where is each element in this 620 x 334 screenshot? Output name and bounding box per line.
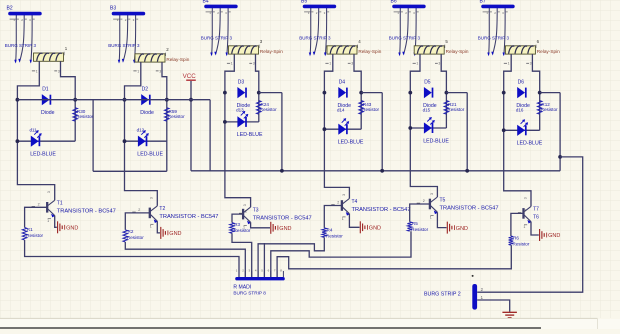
svg-text:d13: d13 [236, 108, 244, 113]
wire R6 to strip pin 7 [277, 245, 511, 277]
wire R2 to strip pin 2 [125, 242, 245, 277]
wire cathode bus / collector net col 4 [324, 93, 349, 199]
node diode row right col 5 [445, 91, 449, 95]
LED d14 [337, 108, 364, 146]
svg-text:R3: R3 [234, 222, 240, 227]
node LED row left col 3 [223, 120, 227, 124]
svg-text:3: 3 [430, 193, 434, 195]
wire VCC rail (cols 1-2) [17, 99, 210, 101]
wire strip pin 5 [263, 243, 265, 277]
wire LED row col 2 [125, 140, 167, 142]
svg-text:B7: B7 [480, 0, 486, 4]
svg-text:1: 1 [508, 62, 510, 66]
svg-text:Resistor: Resistor [76, 114, 93, 119]
svg-text:BURG STRIP 2: BURG STRIP 2 [424, 292, 461, 298]
node diode row left col 5 [408, 91, 412, 95]
wire base net col 3 [232, 214, 243, 223]
connector B6 BURG STRIP 3 [389, 0, 426, 56]
svg-text:Relay-Spin: Relay-Spin [358, 49, 381, 54]
wire relay 1 left pin to node [17, 61, 39, 99]
transistor T3 BC547 [239, 204, 312, 230]
wire cathode bus / collector net col 6 [504, 93, 531, 207]
diode D5 [423, 79, 437, 108]
connector B7 BURG STRIP 3 [478, 0, 515, 56]
svg-text:2: 2 [423, 199, 425, 203]
node branch to output strip [558, 155, 562, 159]
svg-text:1: 1 [150, 225, 152, 229]
wire relay 3 right pin to node [256, 54, 259, 93]
svg-text:Resistor: Resistor [168, 114, 185, 119]
wire VCC rail drop to lower bus [209, 100, 211, 171]
node diode row right col 3 [257, 91, 261, 95]
svg-text:3: 3 [58, 69, 60, 73]
relay 1 Relay-Spin [32, 46, 68, 73]
wire resistor branch col 3 [258, 93, 260, 122]
transistor T4 BC547 [331, 194, 410, 227]
ground at T3 emitter [271, 222, 292, 234]
svg-text:D5: D5 [424, 79, 431, 85]
wire R5 to strip pin 6 [271, 231, 411, 277]
wire diode row extension col 4 [361, 92, 382, 94]
svg-text:T6: T6 [533, 214, 539, 220]
wire relay 4 left pin to node [324, 54, 332, 93]
svg-text:T3: T3 [253, 207, 259, 213]
resistor R3 [230, 222, 251, 233]
node LED row left col 6 [502, 128, 506, 132]
wire LED row col 4 [324, 128, 361, 130]
svg-text:1: 1 [137, 69, 139, 73]
svg-text:TRANSISTOR - BC547: TRANSISTOR - BC547 [440, 205, 499, 211]
wire base net col 4 [324, 206, 342, 228]
window edge [0, 327, 541, 329]
svg-text:GND: GND [369, 226, 381, 232]
resistor R1 [22, 227, 43, 240]
area below sheet [0, 319, 620, 329]
svg-text:B4: B4 [203, 0, 209, 4]
svg-text:B6: B6 [391, 0, 397, 4]
wire relay 6 left pin to node [504, 54, 512, 93]
svg-text:2: 2 [524, 209, 526, 213]
svg-text:BURG STRIP 3: BURG STRIP 3 [389, 36, 421, 41]
connector B5 BURG STRIP 3 [299, 0, 336, 56]
svg-text:R2: R2 [128, 229, 134, 234]
svg-text:B2: B2 [7, 6, 13, 12]
svg-text:B5: B5 [301, 0, 307, 4]
svg-text:VCC: VCC [183, 73, 197, 80]
svg-text:Resistor: Resistor [447, 107, 464, 112]
svg-text:BURG STRIP 3: BURG STRIP 3 [108, 43, 140, 48]
node LED row left col 2 [123, 139, 127, 143]
wire R3 to strip pin 3 [232, 233, 252, 277]
svg-text:T2: T2 [159, 206, 165, 212]
svg-text:GND: GND [279, 226, 291, 232]
svg-text:3: 3 [150, 197, 154, 199]
wire base net col 2 [125, 213, 150, 230]
wire resistor branch col 6 [539, 93, 541, 131]
wire relay 5 left pin to node [410, 54, 420, 93]
node extension col 4 on bus [380, 169, 384, 173]
LED d12 [137, 128, 164, 158]
svg-text:d14: d14 [337, 108, 345, 113]
svg-text:Resistor: Resistor [411, 227, 428, 232]
node extension col 3 on bus [280, 169, 284, 173]
wire diode row extension col 3 [259, 92, 282, 94]
wire LED row col 5 [410, 127, 446, 129]
sheet edge [0, 317, 598, 319]
transistor T1 BC547 [32, 191, 116, 227]
svg-text:GND: GND [548, 233, 560, 239]
svg-text:d16: d16 [516, 108, 524, 113]
resistor R5 [407, 221, 428, 232]
svg-text:Diode: Diode [41, 110, 55, 116]
svg-text:BURG STRIP 3: BURG STRIP 3 [5, 43, 37, 48]
svg-text:LED-BLUE: LED-BLUE [30, 152, 56, 158]
svg-text:GND: GND [456, 226, 468, 232]
svg-text:3: 3 [530, 62, 532, 66]
connector R MADI BURG STRIP 8 [233, 269, 284, 296]
wire relay 3 left pin to node [225, 54, 234, 93]
wire resistor branch col 2 [166, 100, 168, 172]
svg-text:R4: R4 [327, 227, 333, 232]
diode D4 [338, 79, 352, 108]
ground at T2 emitter [161, 227, 182, 239]
wire resistor branch col 5 [445, 93, 447, 128]
svg-text:B3: B3 [110, 6, 116, 12]
node diode row right col 1 [73, 98, 77, 102]
wire base net col 5 [410, 204, 430, 222]
svg-text:3: 3 [253, 62, 255, 66]
svg-text:1: 1 [47, 219, 49, 223]
svg-text:R1: R1 [27, 227, 33, 232]
svg-text:d15: d15 [423, 108, 431, 113]
svg-text:Resistor: Resistor [127, 235, 144, 240]
svg-text:3: 3 [523, 197, 527, 199]
svg-text:LED-BLUE: LED-BLUE [237, 132, 263, 138]
resistor R6 [509, 235, 530, 246]
svg-text:1: 1 [416, 62, 418, 66]
wire cathode bus / collector net col 3 [225, 93, 251, 208]
node diode row left col 6 [502, 91, 506, 95]
wire BURG STRIP 2 pin 1 to ground [477, 300, 510, 312]
svg-text:1: 1 [430, 216, 432, 220]
wire extension drop col 5 [466, 93, 468, 171]
svg-text:Resistor: Resistor [326, 233, 343, 238]
svg-text:R6: R6 [513, 235, 519, 240]
wire lower bus (left segment) [93, 170, 167, 172]
svg-text:GND: GND [66, 226, 78, 232]
wire relay 4 right pin to node [354, 54, 361, 93]
connector B2 BURG STRIP 3 [5, 6, 42, 64]
diode D3 [237, 79, 251, 108]
svg-text:d11: d11 [30, 128, 38, 133]
svg-text:D4: D4 [339, 79, 346, 85]
svg-text:BURG STRIP 3: BURG STRIP 3 [201, 36, 233, 41]
resistor R12 [537, 101, 558, 115]
wire resistor branch col 1 [74, 100, 76, 142]
wire relay 2 left pin to node [125, 62, 141, 100]
svg-text:1: 1 [523, 225, 525, 229]
svg-text:3: 3 [47, 191, 51, 193]
svg-text:2: 2 [337, 201, 339, 205]
svg-text:3: 3 [159, 69, 161, 73]
relay 4 Relay-Spin [325, 39, 381, 66]
resistor R43 [359, 101, 380, 115]
node VCC rail tap [189, 98, 193, 102]
svg-text:Relay-Spin: Relay-Spin [446, 49, 469, 54]
wire R1 to strip pin 1 [25, 240, 239, 277]
relay 5 Relay-Spin [413, 39, 469, 66]
wire col1 extension drop [92, 100, 94, 172]
wire cathode bus / collector net col 2 [125, 100, 158, 206]
svg-text:TRANSISTOR - BC547: TRANSISTOR - BC547 [159, 214, 218, 220]
svg-text:3: 3 [438, 62, 440, 66]
wire relay 2 right pin to node [162, 62, 167, 100]
svg-text:T5: T5 [440, 197, 446, 203]
diode D6 [516, 79, 530, 108]
LED d16 [516, 108, 543, 147]
wire R4 to strip pin 4 [258, 237, 324, 277]
LED d13 [236, 108, 263, 139]
svg-text:LED-BLUE: LED-BLUE [137, 152, 163, 158]
ground at T7 emitter [540, 229, 561, 241]
node diode row right col 6 [538, 91, 542, 95]
wire diode row extension col 6 [540, 92, 560, 94]
svg-text:3: 3 [243, 204, 247, 206]
node diode row left col 1 [16, 98, 20, 102]
svg-text:TRANSISTOR - BC547: TRANSISTOR - BC547 [352, 207, 411, 213]
wire lower bus (right segment) [191, 170, 560, 172]
svg-text:Relay-Spin: Relay-Spin [166, 57, 189, 62]
transistor T5 BC547 [417, 193, 499, 228]
wire relay 6 right pin to node [532, 54, 539, 93]
resistor R2 [123, 229, 144, 242]
svg-text:Resistor: Resistor [26, 233, 43, 238]
wire extension drop col 3 [281, 93, 283, 171]
svg-text:T1: T1 [57, 201, 63, 207]
node diode row right col 4 [359, 91, 363, 95]
node LED row left col 5 [408, 126, 412, 130]
resistor R24 [257, 101, 278, 115]
transistor T7 BC547 [518, 197, 539, 235]
node diode row left col 4 [323, 91, 327, 95]
ground at BURG STRIP 2 [502, 312, 517, 318]
svg-text:Resistor: Resistor [513, 241, 530, 246]
svg-text:1: 1 [231, 62, 233, 66]
svg-text:R5: R5 [412, 221, 418, 226]
svg-text:R MADI: R MADI [233, 284, 251, 290]
wire extension drop col 4 [381, 93, 383, 171]
wire base net col 6 [511, 213, 524, 236]
transistor T2 BC547 [132, 197, 218, 233]
wire LED row col 3 [225, 121, 259, 123]
node diode row left col 2 [123, 98, 127, 102]
wire relay 5 right pin to node [441, 54, 446, 93]
wire relay 1 right pin to node [61, 61, 76, 99]
wire resistor branch col 4 [360, 93, 362, 130]
svg-text:BURG STRIP 8: BURG STRIP 8 [233, 291, 266, 296]
svg-text:2: 2 [38, 203, 40, 207]
resistor R4 [322, 227, 343, 238]
svg-text:BURG STRIP 3: BURG STRIP 3 [299, 36, 331, 41]
svg-text:3: 3 [342, 194, 346, 196]
LED d11 [30, 128, 57, 158]
svg-text:1: 1 [342, 217, 344, 221]
svg-text:Relay-Spin: Relay-Spin [260, 49, 283, 54]
svg-text:D3: D3 [238, 79, 245, 85]
svg-text:Resistor: Resistor [541, 107, 558, 112]
connector B3 BURG STRIP 3 [108, 6, 145, 64]
svg-text:Resistor: Resistor [362, 107, 379, 112]
VCC power port [183, 73, 197, 171]
svg-text:Diode: Diode [140, 110, 154, 116]
svg-text:D2: D2 [142, 87, 149, 93]
diode D2 [140, 87, 154, 116]
svg-text:1: 1 [36, 69, 38, 73]
node LED row left col 1 [16, 139, 20, 143]
LED d15 [423, 108, 450, 145]
resistor R21 [444, 101, 465, 115]
svg-text:Resistor: Resistor [234, 228, 251, 233]
svg-text:TRANSISTOR - BC547: TRANSISTOR - BC547 [57, 209, 116, 215]
node extension col 5 on bus [465, 169, 469, 173]
connector B4 BURG STRIP 3 [201, 0, 238, 56]
ground at T4 emitter [360, 221, 381, 233]
svg-text:T4: T4 [352, 199, 358, 205]
node LED row left col 4 [323, 127, 327, 131]
ground at T5 emitter [447, 222, 468, 234]
svg-text:2: 2 [138, 208, 140, 212]
wire diode row extension col 5 [446, 92, 467, 94]
node diode row left col 3 [223, 91, 227, 95]
svg-text:LED-BLUE: LED-BLUE [423, 138, 449, 144]
svg-text:d12: d12 [137, 128, 145, 133]
svg-text:2: 2 [245, 209, 247, 213]
diode D1 [41, 87, 55, 116]
ground at T1 emitter [58, 221, 79, 233]
resistor R59 [165, 108, 186, 122]
svg-text:T7: T7 [533, 207, 539, 213]
svg-text:D6: D6 [518, 79, 525, 85]
relay 3 Relay-Spin [227, 39, 283, 66]
wire branch to BURG STRIP 2 pin 2 [477, 157, 583, 292]
connector BURG STRIP 2 [424, 275, 484, 310]
relay 2 Relay-Spin [133, 47, 189, 73]
wire base net col 1 [25, 207, 48, 227]
wire extension drop col 6 [559, 93, 561, 171]
svg-text:BURG STRIP 3: BURG STRIP 3 [478, 36, 510, 41]
relay 6 Relay-Spin [504, 39, 560, 66]
svg-text:TRANSISTOR - BC547: TRANSISTOR - BC547 [253, 215, 312, 221]
svg-text:1: 1 [329, 62, 331, 66]
svg-text:3: 3 [351, 62, 353, 66]
svg-text:D1: D1 [42, 87, 49, 93]
wire LED row col 6 [504, 129, 540, 131]
wire LED row col 1 [17, 140, 75, 142]
svg-text:Resistor: Resistor [260, 107, 277, 112]
wire cathode bus / collector net col 1 [17, 100, 54, 201]
svg-text:LED-BLUE: LED-BLUE [338, 140, 364, 146]
svg-text:Relay-Spin: Relay-Spin [537, 49, 560, 54]
resistor R30 [73, 108, 94, 122]
wire cathode bus / collector net col 5 [410, 93, 437, 197]
svg-text:GND: GND [169, 231, 181, 237]
node diode row right col 2 [165, 98, 169, 102]
svg-text:LED-BLUE: LED-BLUE [517, 141, 543, 147]
